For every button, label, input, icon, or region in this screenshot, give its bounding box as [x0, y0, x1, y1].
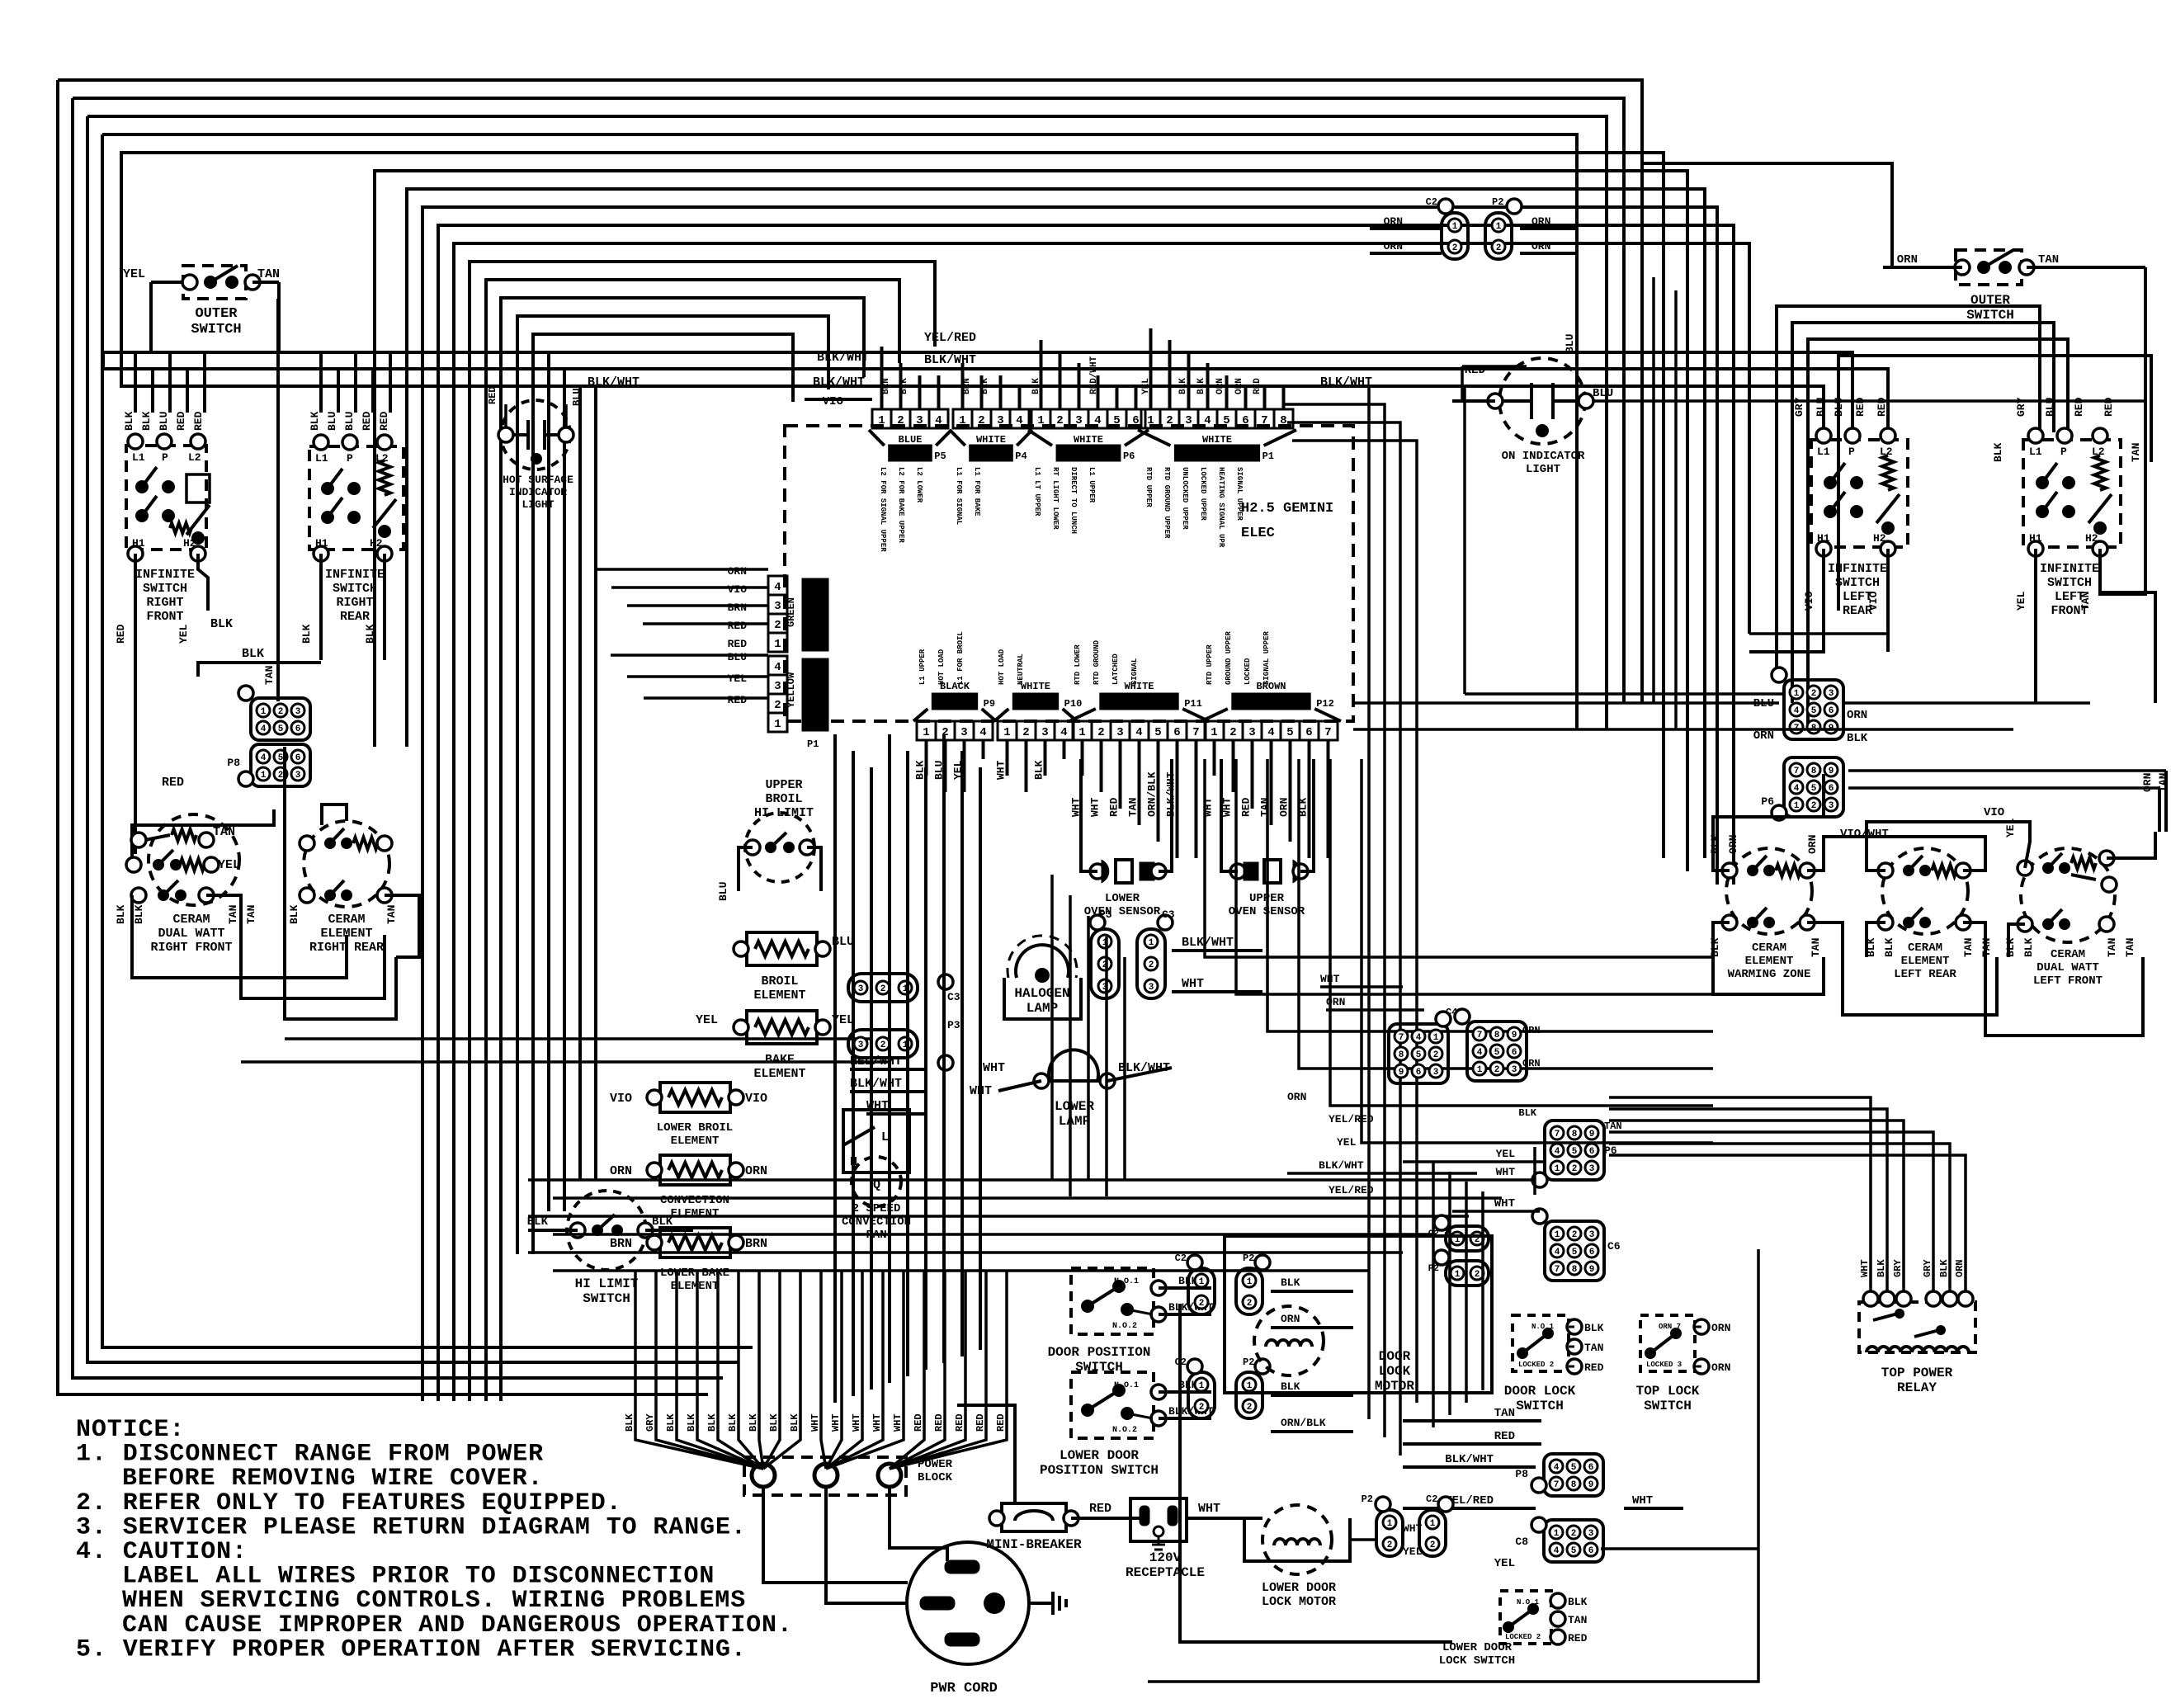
2 speed convection fan box — [843, 1110, 909, 1172]
svg-text:7: 7 — [1261, 414, 1267, 427]
svg-text:ORN: ORN — [1531, 215, 1550, 228]
svg-text:120V: 120V — [1149, 1550, 1182, 1565]
svg-text:VIO: VIO — [1867, 591, 1880, 611]
svg-text:RED: RED — [2073, 397, 2085, 417]
svg-text:RED: RED — [192, 411, 205, 431]
svg-text:1: 1 — [1455, 1270, 1461, 1280]
board top connector P6 WHITE pins 1-6 — [1031, 409, 1050, 428]
svg-text:3: 3 — [1588, 1529, 1594, 1539]
svg-text:5: 5 — [1154, 726, 1161, 739]
svg-text:LIGHT: LIGHT — [1526, 463, 1560, 476]
connector P2 near lower door position switch — [1236, 1372, 1262, 1418]
svg-text:C2: C2 — [1426, 1493, 1437, 1505]
connector P2 door cluster 2-pin horizontal — [1446, 1261, 1489, 1286]
svg-text:ELEMENT: ELEMENT — [1745, 955, 1794, 968]
svg-text:RTD UPPER: RTD UPPER — [1144, 467, 1153, 507]
lower door lock motor dashed circle — [1262, 1505, 1332, 1574]
connector P6 door area (3x3) — [1545, 1121, 1604, 1180]
svg-text:TAN: TAN — [1810, 938, 1822, 957]
svg-text:L1: L1 — [315, 452, 328, 465]
svg-text:1: 1 — [1554, 1529, 1560, 1539]
svg-text:BLK: BLK — [123, 411, 135, 431]
svg-text:2: 2 — [278, 771, 284, 781]
wire outer switch right leg down — [277, 282, 281, 352]
svg-text:1: 1 — [774, 638, 781, 651]
svg-text:C2: C2 — [1426, 196, 1437, 208]
svg-text:BLK/WHT: BLK/WHT — [1445, 1453, 1494, 1466]
svg-text:LOCK MOTOR: LOCK MOTOR — [1262, 1595, 1336, 1609]
svg-text:LEFT FRONT: LEFT FRONT — [2033, 974, 2103, 988]
svg-text:1: 1 — [1794, 689, 1800, 699]
svg-text:2: 2 — [278, 707, 284, 717]
svg-text:BLK: BLK — [1518, 1107, 1536, 1119]
svg-text:BLU: BLU — [1815, 398, 1827, 417]
svg-text:RED: RED — [1108, 797, 1121, 817]
svg-text:BLK: BLK — [115, 904, 127, 924]
svg-text:2: 2 — [1811, 801, 1817, 811]
svg-text:BLK: BLK — [1883, 937, 1895, 957]
svg-text:8: 8 — [1572, 1265, 1578, 1275]
svg-text:ORN/BLK: ORN/BLK — [1146, 771, 1159, 817]
svg-text:P6: P6 — [1123, 451, 1135, 462]
center-bottom horizontal bus lines — [528, 1178, 1535, 1182]
svg-text:4: 4 — [1267, 726, 1274, 739]
ceram dual watt right front dashed circle — [149, 814, 239, 905]
lower door lock switch dashed box — [1500, 1591, 1551, 1644]
ceram element left rear dashed circle — [1882, 848, 1968, 934]
svg-text:2: 2 — [1056, 414, 1063, 427]
svg-text:ORN: ORN — [2141, 773, 2154, 792]
svg-text:1: 1 — [923, 726, 929, 739]
svg-text:L: L — [881, 1130, 889, 1144]
upper oven sensor symbol — [1230, 864, 1245, 879]
wire bus: page outer-left vertical trunk with bottom return to power block — [58, 80, 708, 1394]
infinite switch left front contacts — [2036, 476, 2049, 489]
svg-text:2: 2 — [880, 1040, 886, 1050]
svg-text:3: 3 — [960, 726, 967, 739]
svg-text:ELEMENT: ELEMENT — [1901, 955, 1950, 968]
svg-text:YEL: YEL — [728, 672, 748, 685]
svg-text:9: 9 — [1588, 1480, 1594, 1490]
svg-text:5: 5 — [1811, 784, 1817, 794]
svg-text:3: 3 — [1185, 414, 1192, 427]
svg-text:P12: P12 — [1316, 698, 1334, 710]
svg-text:ORN: ORN — [1384, 240, 1403, 252]
svg-text:6: 6 — [1829, 784, 1834, 794]
svg-text:1: 1 — [1452, 222, 1458, 232]
wire bus top line 10 — [454, 243, 1749, 1401]
connector P8 door area (2x3) — [1544, 1454, 1603, 1496]
svg-text:DOOR POSITION: DOOR POSITION — [1048, 1345, 1151, 1360]
long wires from left elements to center trunk — [285, 1037, 871, 1040]
svg-text:8: 8 — [1399, 1050, 1404, 1060]
convection element box — [660, 1155, 730, 1185]
ceram element right rear dashed circle — [304, 821, 389, 907]
svg-text:ORN: ORN — [1326, 996, 1345, 1008]
svg-text:2: 2 — [1097, 726, 1104, 739]
svg-text:1: 1 — [1387, 1519, 1393, 1529]
svg-text:L2 LOWER: L2 LOWER — [915, 467, 923, 503]
svg-text:SWITCH: SWITCH — [1516, 1399, 1564, 1413]
svg-text:BLK: BLK — [1033, 760, 1045, 780]
svg-text:1: 1 — [1078, 726, 1085, 739]
svg-text:BLK/WHT: BLK/WHT — [588, 375, 640, 389]
upper oven sensor wires — [1221, 759, 1238, 871]
svg-text:LOWER DOOR: LOWER DOOR — [1442, 1641, 1513, 1654]
svg-text:P5: P5 — [934, 451, 946, 462]
svg-text:ORN: ORN — [1954, 1259, 1966, 1277]
infinite switch left rear dashed box — [1811, 440, 1908, 547]
svg-text:8: 8 — [1280, 414, 1286, 427]
top power relay dashed box — [1859, 1302, 1975, 1352]
svg-text:ORN: ORN — [1215, 378, 1225, 394]
svg-text:LOCKED UPPER: LOCKED UPPER — [1199, 467, 1207, 521]
svg-text:BLK: BLK — [768, 1413, 780, 1432]
svg-text:2: 2 — [897, 414, 904, 427]
svg-text:BLK: BLK — [1876, 1259, 1887, 1277]
svg-text:GRY: GRY — [1793, 397, 1805, 417]
right staple over infinite switches 1 — [1777, 306, 2040, 677]
svg-text:ORN: ORN — [1727, 835, 1739, 854]
wire bus top line 3 — [87, 116, 1607, 729]
svg-text:4: 4 — [979, 726, 986, 739]
svg-text:SWITCH: SWITCH — [1835, 576, 1880, 590]
svg-text:ORN: ORN — [745, 1164, 767, 1178]
svg-text:5: 5 — [1286, 726, 1293, 739]
svg-text:6: 6 — [1132, 414, 1139, 427]
svg-text:HOT SURFACE: HOT SURFACE — [503, 474, 573, 486]
svg-text:RED: RED — [115, 624, 127, 644]
svg-text:5: 5 — [278, 724, 284, 734]
svg-text:9: 9 — [1589, 1130, 1595, 1139]
svg-text:BLK: BLK — [1709, 834, 1721, 854]
svg-text:WHITE: WHITE — [1074, 434, 1103, 446]
svg-text:7: 7 — [1554, 1480, 1560, 1490]
pwr cord ground symbol — [1029, 1602, 1053, 1605]
svg-text:ORN: ORN — [1522, 1058, 1541, 1069]
lower lamp symbol — [1049, 1050, 1098, 1081]
svg-text:TAN: TAN — [2157, 773, 2169, 792]
svg-text:TAN: TAN — [213, 825, 235, 839]
svg-text:8: 8 — [1572, 1130, 1578, 1139]
svg-text:5: 5 — [1223, 414, 1229, 427]
svg-text:C3: C3 — [947, 991, 960, 1003]
connector C4 door cluster (3x3) — [1389, 1024, 1448, 1083]
svg-text:P2: P2 — [1243, 1356, 1254, 1368]
svg-text:P: P — [1848, 446, 1855, 458]
door lock switch terminals and labels — [1567, 1319, 1582, 1334]
top power relay contacts inside — [1873, 1314, 1898, 1320]
connector pair C2 P2 top (2-pin) — [1442, 213, 1468, 259]
svg-text:L1: L1 — [132, 451, 145, 464]
svg-text:3: 3 — [1041, 726, 1048, 739]
svg-text:LOCKED 2: LOCKED 2 — [1505, 1633, 1541, 1641]
svg-text:ORN: ORN — [1711, 1322, 1730, 1334]
top power relay coil — [1867, 1347, 1969, 1352]
svg-text:REAR: REAR — [340, 610, 370, 624]
door lock motor outline box — [1225, 1236, 1492, 1393]
svg-text:ORN: ORN — [1384, 215, 1403, 228]
svg-text:ON INDICATOR: ON INDICATOR — [1502, 450, 1585, 463]
wire bus top line 9 — [438, 225, 1734, 1401]
svg-text:CERAM: CERAM — [2051, 948, 2085, 961]
svg-text:WHITE: WHITE — [1202, 434, 1232, 446]
svg-text:5: 5 — [278, 753, 284, 763]
svg-text:6: 6 — [1416, 1068, 1422, 1078]
svg-text:BLK: BLK — [706, 1413, 718, 1432]
wire outer switch left leg down — [149, 282, 153, 352]
svg-text:TOP POWER: TOP POWER — [1881, 1366, 1953, 1380]
svg-text:VIO/WHT: VIO/WHT — [1840, 828, 1889, 841]
svg-text:LOCKED: LOCKED — [1244, 658, 1252, 685]
svg-text:BLK: BLK — [727, 1413, 739, 1432]
connector C2 near lower door position switch — [1188, 1372, 1215, 1418]
svg-text:SWITCH: SWITCH — [143, 582, 187, 596]
svg-text:1: 1 — [774, 718, 781, 731]
svg-text:N.O.2: N.O.2 — [1112, 1426, 1137, 1435]
svg-text:RTD LOWER: RTD LOWER — [1074, 644, 1082, 685]
svg-text:BLK/WHT: BLK/WHT — [817, 351, 869, 365]
svg-text:CERAM: CERAM — [1908, 941, 1942, 955]
svg-text:SWITCH: SWITCH — [1966, 308, 2014, 323]
svg-text:7: 7 — [1477, 1031, 1483, 1040]
svg-text:GROUND UPPER: GROUND UPPER — [1225, 631, 1233, 685]
svg-text:L1 UPPER: L1 UPPER — [918, 649, 927, 685]
svg-text:TAN: TAN — [1494, 1407, 1515, 1420]
svg-text:INDICATOR: INDICATOR — [509, 486, 567, 498]
right staple over infinite switches 2 — [1792, 323, 2054, 703]
svg-text:RED: RED — [1253, 378, 1262, 394]
svg-text:BLK: BLK — [288, 904, 300, 924]
svg-text:P2: P2 — [1492, 196, 1503, 208]
svg-text:BLU: BLU — [717, 882, 729, 901]
svg-text:3: 3 — [997, 414, 1003, 427]
power block terminal 3 — [878, 1464, 901, 1487]
right edge verticals to ceramics — [2164, 771, 2168, 832]
lower broil element box — [660, 1083, 730, 1112]
wire bus top line 12 — [486, 280, 899, 1401]
svg-text:2: 2 — [1811, 689, 1817, 699]
svg-text:CERAM: CERAM — [328, 913, 365, 927]
svg-text:BLK/WHT: BLK/WHT — [1319, 1159, 1364, 1172]
pwr cord circle — [907, 1542, 1029, 1664]
svg-text:P2: P2 — [1243, 1253, 1254, 1264]
svg-text:1: 1 — [261, 707, 267, 717]
infinite switch left front dashed box — [2023, 440, 2121, 547]
svg-text:GREEN: GREEN — [786, 597, 797, 627]
connector C3 3-pin horizontal — [848, 974, 918, 1002]
svg-text:SWITCH: SWITCH — [2047, 576, 2092, 590]
svg-text:ORN: ORN — [1522, 1025, 1541, 1036]
wire YEL TAN drops from left front switch — [2034, 558, 2037, 703]
left elements wiring loop inner — [322, 804, 347, 825]
right staple over infinite switches 4 — [1838, 356, 2151, 611]
svg-text:BLU: BLU — [1593, 387, 1613, 400]
svg-text:TAN: TAN — [2124, 938, 2136, 957]
power block to pwr cord wires — [763, 1487, 908, 1583]
svg-text:P: P — [162, 451, 168, 464]
svg-text:YEL: YEL — [1403, 1545, 1423, 1558]
svg-text:BLK: BLK — [2022, 937, 2035, 957]
svg-text:4: 4 — [1060, 726, 1067, 739]
svg-text:WHT: WHT — [1182, 977, 1204, 991]
svg-text:BLK: BLK — [242, 647, 264, 661]
connector C8 door area (2x3) — [1544, 1520, 1603, 1562]
svg-text:6: 6 — [295, 753, 301, 763]
right bottom long wires — [1180, 1304, 1452, 1642]
svg-text:4: 4 — [774, 581, 781, 594]
svg-text:6: 6 — [1173, 726, 1180, 739]
svg-text:P11: P11 — [1184, 698, 1202, 710]
svg-text:2: 2 — [1229, 726, 1236, 739]
infinite switch right rear contacts — [321, 482, 334, 495]
svg-text:YEL: YEL — [177, 624, 190, 644]
svg-text:BLOCK: BLOCK — [918, 1471, 953, 1484]
svg-text:CERAM: CERAM — [1752, 941, 1786, 955]
top lock switch terminals and labels — [1694, 1319, 1709, 1334]
svg-text:INFINITE: INFINITE — [135, 568, 195, 582]
svg-text:BLU: BLU — [1833, 398, 1845, 417]
infinite switch left front terminals — [2028, 428, 2043, 443]
ceram dual watt right front mid contacts — [126, 857, 141, 872]
svg-text:5: 5 — [1416, 1050, 1422, 1060]
upper broil hi limit switch symbol — [745, 813, 814, 882]
connector C2 door cluster 2-pin horizontal — [1446, 1226, 1489, 1251]
svg-text:CONVECTION: CONVECTION — [660, 1194, 729, 1207]
right horizontal feeder lines — [1465, 692, 1784, 696]
svg-text:BLK/WHT: BLK/WHT — [1182, 936, 1234, 950]
board left connector R1 GREEN pins 4-1 — [768, 576, 787, 595]
svg-text:BLK: BLK — [748, 1413, 759, 1432]
lower door position switch dashed box — [1071, 1372, 1154, 1438]
svg-text:NEUTRAL: NEUTRAL — [1017, 653, 1025, 685]
svg-text:6: 6 — [1589, 1147, 1595, 1157]
svg-text:WHT: WHT — [983, 1061, 1005, 1075]
hot surface indicator light dashed circle — [501, 400, 570, 469]
svg-text:1: 1 — [1555, 1230, 1560, 1240]
svg-text:P1: P1 — [1262, 451, 1274, 462]
svg-text:1: 1 — [1430, 1519, 1436, 1529]
connector P4 door cluster (3x3) — [1467, 1021, 1527, 1081]
svg-text:6: 6 — [1588, 1463, 1594, 1473]
svg-text:3: 3 — [295, 707, 301, 717]
svg-text:BLU: BLU — [326, 412, 338, 431]
svg-text:TAN: TAN — [1604, 1121, 1622, 1132]
svg-text:RTD GROUND UPPER: RTD GROUND UPPER — [1163, 467, 1171, 539]
svg-text:VIO: VIO — [1803, 591, 1815, 611]
svg-text:3: 3 — [774, 680, 781, 693]
svg-text:WHITE: WHITE — [976, 434, 1006, 446]
connector C2 near door position switch — [1188, 1268, 1215, 1314]
svg-text:RT LIGHT LOWER: RT LIGHT LOWER — [1051, 467, 1060, 530]
svg-text:2: 2 — [1430, 1541, 1436, 1550]
svg-text:WARMING ZONE: WARMING ZONE — [1728, 968, 1811, 981]
svg-text:7: 7 — [1555, 1130, 1560, 1139]
svg-text:BROWN: BROWN — [1256, 681, 1286, 692]
svg-text:C8: C8 — [1515, 1536, 1528, 1548]
board top connector P4 WHITE pins 1-4 — [953, 409, 972, 428]
svg-text:BRN: BRN — [728, 602, 747, 614]
svg-text:RED: RED — [1584, 1361, 1604, 1374]
svg-text:LEFT REAR: LEFT REAR — [1894, 968, 1956, 981]
svg-text:SIGNAL: SIGNAL — [1130, 658, 1139, 685]
svg-text:7: 7 — [1794, 767, 1800, 776]
mini-breaker box — [1002, 1503, 1066, 1531]
svg-text:VIO: VIO — [1984, 806, 2004, 819]
svg-text:HOT LOAD: HOT LOAD — [937, 649, 946, 685]
svg-text:ORN: ORN — [1806, 835, 1819, 854]
svg-text:VIO: VIO — [823, 395, 843, 408]
svg-text:MOTOR: MOTOR — [1375, 1379, 1414, 1394]
svg-text:P: P — [347, 452, 353, 465]
wire bus top line 4 — [102, 134, 1577, 729]
infinite switch left rear terminals — [1816, 428, 1831, 443]
svg-text:BLK: BLK — [1196, 378, 1206, 394]
svg-text:TAN: TAN — [1127, 798, 1140, 817]
svg-text:3: 3 — [1829, 689, 1834, 699]
svg-text:DUAL WATT: DUAL WATT — [158, 927, 224, 941]
svg-text:BLK: BLK — [300, 624, 313, 644]
svg-text:ORN: ORN — [610, 1164, 632, 1178]
wire from mini-breaker up-left riser — [957, 1405, 1015, 1503]
svg-text:5: 5 — [1571, 1546, 1577, 1556]
bake element box — [747, 1011, 817, 1044]
infinite switch right rear dashed box — [309, 446, 404, 550]
svg-text:RIGHT FRONT: RIGHT FRONT — [150, 941, 232, 955]
connector C2 lower door (2-pin) — [1419, 1510, 1446, 1556]
svg-text:LATCHED: LATCHED — [1111, 653, 1120, 685]
svg-text:L1 FOR SIGNAL: L1 FOR SIGNAL — [955, 467, 963, 525]
svg-text:BLK: BLK — [133, 904, 145, 924]
svg-text:BLU: BLU — [158, 412, 170, 431]
svg-text:BLUE: BLUE — [899, 434, 923, 446]
svg-text:BLK/WHT: BLK/WHT — [924, 353, 976, 367]
svg-text:H2.5 GEMINI: H2.5 GEMINI — [1241, 501, 1333, 517]
svg-text:2: 2 — [774, 619, 781, 632]
on indicator light dashed circle — [1499, 358, 1585, 444]
svg-text:1: 1 — [959, 414, 965, 427]
infinite switch right front terminals — [128, 434, 143, 449]
svg-text:ELEC: ELEC — [1241, 526, 1275, 541]
svg-text:2: 2 — [1199, 1403, 1205, 1413]
ceram element right rear resistor line — [300, 836, 314, 851]
svg-text:HOT LOAD: HOT LOAD — [998, 649, 1006, 685]
svg-text:BLK: BLK — [2004, 937, 2017, 957]
svg-text:1: 1 — [1555, 1164, 1560, 1174]
svg-text:L2 FOR BAKE UPPER: L2 FOR BAKE UPPER — [897, 467, 905, 543]
svg-text:6: 6 — [1242, 414, 1248, 427]
svg-text:GRY: GRY — [1892, 1259, 1904, 1277]
svg-text:OUTER: OUTER — [1970, 293, 2010, 308]
svg-text:4: 4 — [774, 661, 781, 674]
svg-text:RED: RED — [728, 638, 748, 650]
board top connector P5 BLUE pins 1-4 — [872, 409, 891, 428]
wire drops to infinite switch right rear — [319, 352, 323, 413]
svg-text:BLK: BLK — [1281, 1380, 1300, 1393]
svg-text:INFINITE: INFINITE — [2040, 562, 2099, 576]
svg-text:3: 3 — [774, 600, 781, 613]
svg-text:SWITCH: SWITCH — [191, 322, 241, 337]
svg-text:BLK: BLK — [1992, 442, 2004, 462]
svg-text:3: 3 — [858, 984, 864, 994]
svg-text:P2: P2 — [1362, 1493, 1373, 1505]
120v receptacle box — [1130, 1498, 1187, 1541]
right ceramic wiring loops — [1713, 774, 1824, 871]
svg-text:BLK: BLK — [1178, 378, 1188, 394]
svg-text:YEL/RED: YEL/RED — [1329, 1184, 1374, 1196]
wire bus top line 13 — [501, 298, 864, 1401]
hot surface indicator light battery symbol — [506, 433, 528, 436]
